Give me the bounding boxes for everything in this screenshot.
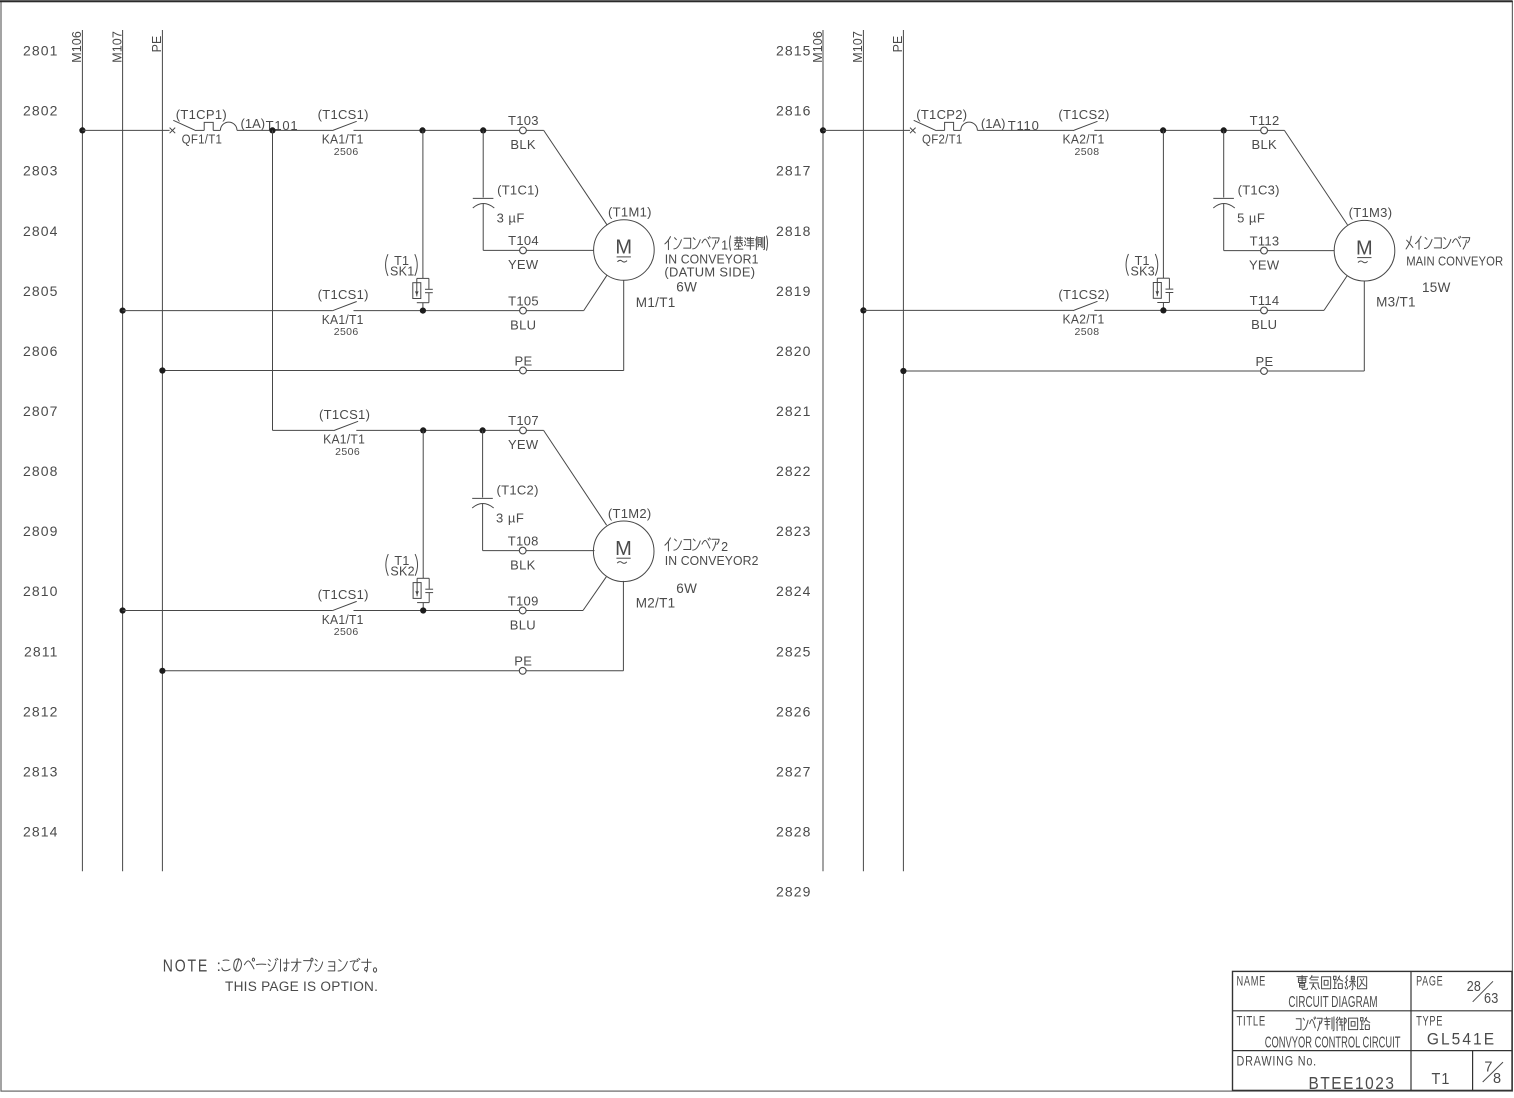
svg-text:PAGE: PAGE — [1416, 974, 1443, 989]
surge killer SK3 (T1) — [1153, 130, 1173, 310]
svg-text:2506: 2506 — [334, 146, 359, 158]
label 2508 — [1075, 326, 1100, 338]
label (T1C2) — [496, 482, 538, 497]
title block TITLE cell — [1237, 1014, 1267, 1029]
svg-text:(T1CS2): (T1CS2) — [1058, 287, 1109, 302]
wire contact to T114 — [1094, 309, 1260, 311]
svg-text:5 µF: 5 µF — [1237, 210, 1265, 225]
note text ja: this page is option — [163, 956, 377, 976]
label KA2/T1 — [1063, 132, 1105, 147]
node M107 junction row 2819 — [860, 307, 866, 313]
label (1A) — [241, 116, 266, 131]
bus M107 vertical line x=863.4 — [862, 30, 864, 871]
svg-text:BLK: BLK — [1252, 137, 1278, 152]
svg-text:28: 28 — [1467, 978, 1481, 995]
circuit protector QF2/T1 (T1CP2) — [910, 120, 977, 133]
label (T1 SK2) — [386, 554, 418, 579]
label YEW — [508, 437, 539, 452]
svg-text:T110: T110 — [1008, 118, 1040, 133]
motor M2 power 6W — [676, 581, 697, 596]
label QF2/T1 — [922, 132, 963, 147]
wire motor M1 to PE — [162, 280, 623, 370]
line number labels left column 2801-2814 — [23, 43, 59, 840]
svg-text:2802: 2802 — [23, 103, 59, 119]
svg-text:1: 1 — [721, 239, 728, 253]
bus label M107 — [851, 31, 865, 63]
node PE junction row 2806 — [159, 367, 165, 373]
wire C3 to T113 — [1224, 250, 1261, 252]
svg-text:2809: 2809 — [23, 523, 59, 539]
relay contact KA1/T1 (T1CS1) 2506 — [332, 601, 357, 610]
label 2506 — [334, 326, 359, 338]
label BLU — [510, 317, 536, 332]
svg-text:(T1M1): (T1M1) — [608, 205, 652, 220]
svg-text:MAIN CONVEYOR: MAIN CONVEYOR — [1406, 255, 1503, 269]
svg-text:2821: 2821 — [776, 403, 812, 419]
svg-text:M3/T1: M3/T1 — [1376, 295, 1416, 310]
title en CONVYOR CONTROL CIRCUIT — [1265, 1034, 1401, 1051]
svg-text:M106: M106 — [811, 31, 825, 63]
motor M3 reference M3/T1 — [1376, 295, 1416, 310]
label YEW — [508, 257, 539, 272]
svg-text:(1A): (1A) — [981, 116, 1006, 131]
label 5 µF — [1237, 210, 1265, 225]
svg-text:(T1CP1): (T1CP1) — [176, 107, 227, 122]
svg-text:2817: 2817 — [776, 163, 812, 179]
svg-text:QF1/T1: QF1/T1 — [182, 132, 223, 147]
wire 2802 from M106 to breaker — [82, 129, 169, 131]
svg-text:(T1CS1): (T1CS1) — [318, 587, 369, 602]
svg-text:YEW: YEW — [508, 257, 539, 272]
svg-text:T1: T1 — [1432, 1071, 1451, 1088]
svg-text:SK1: SK1 — [390, 265, 415, 279]
type GL541E — [1427, 1031, 1496, 1049]
svg-text:2813: 2813 — [23, 763, 59, 779]
wire T107 to motor M2 YEW lead — [526, 430, 606, 525]
motor M1 reference M1/T1 — [636, 295, 676, 310]
svg-text:GL541E: GL541E — [1427, 1031, 1496, 1049]
label (T1CS1) — [319, 407, 370, 422]
svg-text:(T1M2): (T1M2) — [608, 506, 652, 521]
terminal T107 — [508, 413, 539, 434]
bus PE vertical line x=903.4 — [902, 30, 904, 871]
svg-text:6W: 6W — [676, 581, 697, 596]
svg-text:2506: 2506 — [334, 326, 359, 338]
label KA1/T1 — [323, 432, 365, 447]
title en CIRCUIT DIAGRAM — [1288, 994, 1377, 1011]
svg-text:T112: T112 — [1250, 113, 1280, 128]
svg-text:M: M — [615, 237, 632, 259]
svg-text:15W: 15W — [1422, 280, 1451, 295]
label BLU — [510, 617, 536, 632]
svg-text:NAME: NAME — [1237, 974, 1267, 989]
motor M3 description en — [1406, 255, 1503, 269]
bus M107 vertical line x=122.6 — [122, 30, 124, 871]
svg-text:NOTE: NOTE — [163, 956, 209, 976]
svg-text:T108: T108 — [508, 533, 539, 548]
motor M2 reference M2/T1 — [636, 595, 676, 610]
wire T113 to motor M3 YEW lead — [1267, 250, 1334, 252]
svg-text:2828: 2828 — [776, 824, 812, 840]
label (T1CP2) — [916, 107, 967, 122]
wire 2819 from M107 to contact — [863, 309, 1073, 311]
svg-text:PE: PE — [514, 654, 532, 669]
label (T1M1) — [608, 205, 652, 220]
svg-text:2804: 2804 — [23, 223, 59, 239]
label (T1C1) — [497, 182, 539, 197]
terminal PE — [1256, 354, 1274, 375]
label (1A) — [981, 116, 1006, 131]
svg-text:DRAWING No.: DRAWING No. — [1237, 1053, 1318, 1068]
wire T112 to motor M3 BLK lead — [1268, 130, 1348, 225]
svg-text:2801: 2801 — [23, 43, 59, 59]
wire C1 to T104 — [483, 249, 519, 251]
label YEW — [1249, 257, 1280, 272]
svg-text:CIRCUIT DIAGRAM: CIRCUIT DIAGRAM — [1288, 994, 1377, 1011]
svg-text:YEW: YEW — [1249, 257, 1280, 272]
terminal PE — [515, 353, 533, 374]
wire T108 to motor M2 BLK lead — [526, 550, 594, 552]
label 3 µF — [497, 210, 525, 225]
motor M1 description ja: in-conveyor1 (datum side) — [665, 236, 768, 253]
svg-text:BLU: BLU — [510, 317, 536, 332]
page number 28/63 — [1467, 978, 1499, 1007]
wire T109 to motor M2 BLU lead — [526, 577, 606, 611]
label (T1CS1) — [318, 587, 369, 602]
node junction SK2 branch — [420, 427, 426, 433]
label (T1 SK3) — [1126, 254, 1158, 279]
svg-text:2508: 2508 — [1075, 146, 1100, 158]
wire contact to T107 — [356, 429, 519, 431]
svg-text:2814: 2814 — [23, 824, 59, 840]
svg-text:BLU: BLU — [510, 617, 536, 632]
svg-text:(T1CS1): (T1CS1) — [318, 107, 369, 122]
label (T1 SK1) — [386, 254, 418, 279]
node junction SK1 branch — [419, 127, 425, 133]
node T101 junction — [269, 127, 275, 133]
wire breaker to T101 — [237, 129, 332, 131]
svg-text:2829: 2829 — [776, 884, 812, 900]
svg-text:2805: 2805 — [23, 283, 59, 299]
circuit protector QF1/T1 (T1CP1) — [170, 120, 237, 133]
svg-text:SK3: SK3 — [1131, 264, 1156, 278]
svg-text:QF2/T1: QF2/T1 — [922, 132, 963, 147]
node junction C3 branch — [1221, 127, 1227, 133]
line number labels right column 2815-2829 — [776, 43, 812, 900]
label 2506 — [334, 146, 359, 158]
svg-text:(T1M3): (T1M3) — [1349, 205, 1393, 220]
label BLK — [1252, 137, 1278, 152]
label (T1CS1) — [318, 107, 369, 122]
svg-text:2820: 2820 — [776, 343, 812, 359]
relay contact KA1/T1 (T1CS1) 2506 — [334, 421, 359, 430]
svg-text:PE: PE — [515, 353, 533, 368]
svg-text:8: 8 — [1493, 1071, 1501, 1087]
bus label M106 — [70, 31, 84, 63]
capacitor T1C1 3 µF — [473, 130, 495, 250]
wire contact to T112 — [1094, 129, 1260, 131]
svg-text:KA2/T1: KA2/T1 — [1063, 312, 1105, 327]
svg-text:IN CONVEYOR2: IN CONVEYOR2 — [665, 554, 759, 568]
title block frame — [1233, 971, 1513, 1090]
svg-text:(1A): (1A) — [241, 116, 266, 131]
label KA2/T1 — [1063, 312, 1105, 327]
node junction C1 branch — [480, 127, 486, 133]
terminal PE — [514, 654, 532, 675]
label 2506 — [335, 446, 360, 458]
note text en — [225, 979, 378, 994]
svg-text:KA1/T1: KA1/T1 — [322, 312, 364, 327]
wire C2 to T108 — [483, 550, 520, 552]
terminal T114 — [1250, 293, 1280, 314]
svg-text:2818: 2818 — [776, 223, 812, 239]
capacitor T1C2 3 µF — [472, 430, 494, 550]
svg-text:2808: 2808 — [23, 463, 59, 479]
node junction SK3 branch — [1160, 127, 1166, 133]
terminal T108 — [508, 533, 539, 554]
relay contact KA1/T1 (T1CS1) 2506 — [332, 302, 357, 311]
title block PAGE cell — [1416, 974, 1443, 989]
relay contact KA1/T1 (T1CS1) 2506 — [332, 121, 357, 130]
svg-text:2812: 2812 — [23, 703, 59, 719]
label 2508 — [1075, 146, 1100, 158]
svg-text:T104: T104 — [508, 233, 539, 248]
wire 2816 from M106 to breaker — [823, 129, 910, 131]
label KA1/T1 — [322, 132, 364, 147]
label (T1CS2) — [1058, 107, 1109, 122]
label (T1CP1) — [176, 107, 227, 122]
motor T1M2 — [593, 521, 654, 582]
label T110 — [1008, 118, 1040, 133]
svg-text:6W: 6W — [676, 280, 697, 295]
wire 2805 from M107 to contact — [123, 310, 333, 312]
label (T1CS1) — [318, 287, 369, 302]
svg-text:TITLE: TITLE — [1237, 1014, 1267, 1029]
motor T1M3 — [1334, 220, 1395, 281]
svg-text:T103: T103 — [508, 113, 539, 128]
terminal T113 — [1250, 233, 1280, 254]
svg-text:3 µF: 3 µF — [496, 510, 524, 525]
svg-text:(T1C1): (T1C1) — [497, 182, 539, 197]
title ja: circuit diagram kanji — [1297, 976, 1367, 990]
label (T1M3) — [1349, 205, 1393, 220]
capacitor T1C3 5 µF — [1213, 130, 1235, 250]
svg-text:3 µF: 3 µF — [497, 210, 525, 225]
svg-text:CONVYOR CONTROL CIRCUIT: CONVYOR CONTROL CIRCUIT — [1265, 1034, 1401, 1051]
terminal T109 — [508, 593, 539, 614]
svg-text:M2/T1: M2/T1 — [636, 595, 676, 610]
title block TYPE cell — [1416, 1014, 1443, 1029]
node junction C2 branch — [480, 427, 486, 433]
surge killer SK1 (T1) — [413, 130, 433, 310]
svg-text:(T1C2): (T1C2) — [496, 482, 538, 497]
svg-text:2806: 2806 — [23, 343, 59, 359]
bus PE vertical line x=162.4 — [161, 30, 163, 871]
terminal T112 — [1250, 113, 1280, 134]
bus label PE — [150, 36, 164, 53]
motor M3 description ja: main conveyor — [1406, 236, 1470, 249]
svg-text:KA1/T1: KA1/T1 — [323, 432, 365, 447]
svg-text:2822: 2822 — [776, 463, 812, 479]
label KA1/T1 — [322, 612, 364, 627]
drawing number BTEE1023 — [1309, 1073, 1396, 1093]
motor T1M1 — [594, 220, 655, 281]
svg-text:2: 2 — [721, 540, 728, 554]
bus M106 vertical line x=823 — [822, 30, 824, 871]
svg-text:T114: T114 — [1250, 293, 1280, 308]
svg-text:2826: 2826 — [776, 703, 812, 719]
relay contact KA2/T1 (T1CS2) 2508 — [1073, 301, 1098, 310]
node junction SK2 bottom — [420, 607, 426, 613]
svg-text:YEW: YEW — [508, 437, 539, 452]
svg-text:KA2/T1: KA2/T1 — [1063, 132, 1105, 147]
svg-text:BLK: BLK — [510, 137, 536, 152]
title block DRAWING No cell — [1237, 1053, 1318, 1068]
node M107 junction row 2805 — [120, 308, 126, 314]
svg-text:M106: M106 — [70, 31, 84, 63]
terminal T104 — [508, 233, 539, 254]
svg-text:PE: PE — [891, 36, 905, 53]
svg-text:TYPE: TYPE — [1416, 1014, 1443, 1029]
motor M2 description ja: in-conveyor2 — [665, 538, 728, 554]
svg-text:(T1C3): (T1C3) — [1238, 182, 1280, 197]
wire T103 to motor M1 BLK lead — [526, 130, 607, 224]
wire T105 to motor M1 BLU lead — [526, 275, 607, 310]
motor M1 description en line2 — [664, 265, 755, 279]
svg-text:2803: 2803 — [23, 163, 59, 179]
svg-text:BTEE1023: BTEE1023 — [1309, 1073, 1396, 1093]
svg-text:M107: M107 — [851, 31, 865, 63]
label BLK — [510, 557, 536, 572]
svg-text:M107: M107 — [110, 31, 124, 63]
label 3 µF — [496, 510, 524, 525]
svg-text:PE: PE — [1256, 354, 1274, 369]
wire T114 to motor M3 BLU lead — [1267, 276, 1347, 311]
svg-text:2506: 2506 — [334, 626, 359, 638]
node PE junction row 2820 — [900, 368, 906, 374]
wire contact to T109 — [354, 610, 520, 612]
svg-text:T107: T107 — [508, 413, 539, 428]
svg-text:2506: 2506 — [335, 446, 360, 458]
svg-text:M1/T1: M1/T1 — [636, 295, 676, 310]
svg-text::: : — [217, 958, 221, 975]
svg-text:(T1CP2): (T1CP2) — [916, 107, 967, 122]
svg-text:BLU: BLU — [1251, 317, 1277, 332]
node junction SK1 bottom — [420, 308, 426, 314]
terminal T105 — [508, 293, 539, 314]
title block NAME cell — [1237, 974, 1267, 989]
svg-text:(T1CS1): (T1CS1) — [318, 287, 369, 302]
svg-text:THIS PAGE IS OPTION.: THIS PAGE IS OPTION. — [225, 979, 378, 994]
svg-text:(DATUM SIDE): (DATUM SIDE) — [664, 265, 755, 279]
svg-text:IN CONVEYOR1: IN CONVEYOR1 — [665, 253, 759, 267]
relay contact KA2/T1 (T1CS2) 2508 — [1073, 121, 1098, 130]
svg-text:2824: 2824 — [776, 583, 812, 599]
bus label PE — [891, 36, 905, 53]
motor M3 power 15W — [1422, 280, 1451, 295]
wire motor M3 to PE — [903, 281, 1364, 371]
svg-text:2816: 2816 — [776, 103, 812, 119]
svg-text:2811: 2811 — [24, 643, 59, 659]
svg-text:2815: 2815 — [776, 43, 812, 59]
surge killer SK2 (T1) — [413, 430, 433, 610]
svg-text:2807: 2807 — [23, 403, 59, 419]
label QF1/T1 — [182, 132, 223, 147]
wire contact to T103 — [354, 129, 520, 131]
wire T104 to motor M1 YEW lead — [526, 249, 593, 251]
wire contact to T105 — [354, 310, 520, 312]
node junction SK3 bottom — [1160, 307, 1166, 313]
svg-text:2823: 2823 — [776, 523, 812, 539]
svg-text:2508: 2508 — [1075, 326, 1100, 338]
svg-text:(T1CS2): (T1CS2) — [1058, 107, 1109, 122]
svg-text:2819: 2819 — [776, 283, 812, 299]
label (T1CS2) — [1058, 287, 1109, 302]
sheet number 7/8 — [1483, 1060, 1503, 1087]
motor M2 description en — [665, 554, 759, 568]
svg-text:PE: PE — [150, 36, 164, 53]
svg-text:M: M — [615, 538, 632, 560]
label KA1/T1 — [322, 312, 364, 327]
wire motor M2 to PE — [162, 581, 623, 671]
title ja: conveyor control circuit kanji — [1296, 1017, 1370, 1031]
node PE junction row 2811 — [159, 668, 165, 674]
svg-text:(T1CS1): (T1CS1) — [319, 407, 370, 422]
node M106 junction row 2816 — [820, 127, 826, 133]
label BLK — [510, 137, 536, 152]
label T101 — [266, 118, 299, 133]
svg-text:63: 63 — [1484, 990, 1499, 1007]
terminal T103 — [508, 113, 539, 134]
wire breaker to contact — [977, 129, 1073, 131]
label (T1C3) — [1238, 182, 1280, 197]
motor M1 power 6W — [676, 280, 697, 295]
node M106 junction row 2802 — [79, 127, 85, 133]
bus label M107 — [110, 31, 124, 63]
svg-text:T113: T113 — [1250, 233, 1280, 248]
bus M106 vertical line x=82.4 — [81, 30, 83, 871]
svg-text:SK2: SK2 — [390, 565, 415, 579]
svg-text:KA1/T1: KA1/T1 — [322, 612, 364, 627]
svg-text:M: M — [1356, 237, 1373, 259]
svg-text:KA1/T1: KA1/T1 — [322, 132, 364, 147]
label (T1M2) — [608, 506, 652, 521]
wire T101 stem down to row 2807 — [273, 130, 334, 430]
svg-text:BLK: BLK — [510, 557, 536, 572]
wire 2810 from M107 to contact — [123, 610, 333, 612]
svg-text:2810: 2810 — [23, 583, 59, 599]
bus label M106 — [811, 31, 825, 63]
motor M1 description en line1 — [665, 253, 759, 267]
sheet T1 — [1432, 1071, 1451, 1088]
svg-text:2825: 2825 — [776, 643, 812, 659]
node M107 junction row 2810 — [120, 607, 126, 613]
svg-text:T109: T109 — [508, 593, 539, 608]
label 2506 — [334, 626, 359, 638]
label BLU — [1251, 317, 1277, 332]
svg-text:T105: T105 — [508, 293, 539, 308]
svg-text:2827: 2827 — [776, 763, 812, 779]
